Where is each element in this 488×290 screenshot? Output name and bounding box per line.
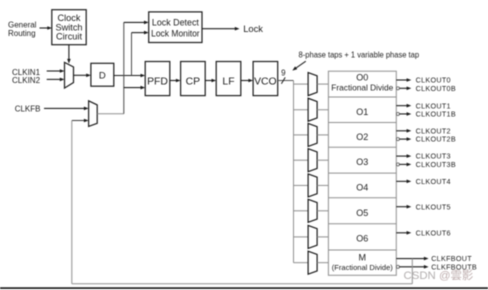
svg-text:CSDN @雲影: CSDN @雲影 <box>404 269 474 282</box>
wire mux to divider O1 <box>317 109 328 111</box>
wire output CLKFBOUT <box>396 257 428 261</box>
wire output CLKOUT0B <box>399 87 411 91</box>
wire mux to divider M <box>317 262 328 264</box>
wire divider row boundary y122.5 <box>328 122 396 124</box>
block Clock Switch Circuit <box>52 10 86 45</box>
wire feedback left vertical to mux M2 <box>71 121 73 284</box>
block D divider <box>91 63 114 86</box>
svg-text:CLKOUT4: CLKOUT4 <box>416 177 451 186</box>
wire clock switch circuit select to mux M1 <box>67 45 71 64</box>
wire feedback junction vertical from CLKFBOUT <box>411 259 413 284</box>
mux phase select O3 <box>308 149 317 172</box>
svg-text:Lock Detect: Lock Detect <box>152 18 199 28</box>
pin inverted output bubble CLKOUT2B <box>396 138 399 141</box>
wire LF to VCO <box>241 79 253 83</box>
wire divider row boundary y97 <box>328 96 396 98</box>
wire output CLKOUT2B <box>399 137 411 141</box>
wire divider row boundary y250 <box>328 249 396 251</box>
wire bus tap to mux O2 <box>294 134 309 136</box>
wire CP to LF <box>205 79 216 83</box>
pin inverted output bubble CLKOUT3B <box>396 163 399 166</box>
svg-text:CLKOUT1B: CLKOUT1B <box>416 110 456 119</box>
block LF <box>216 62 241 96</box>
svg-text:O0: O0 <box>356 73 368 83</box>
block VCO <box>253 62 278 96</box>
wire output CLKOUT6 <box>396 231 411 235</box>
svg-text:CLKIN2: CLKIN2 <box>12 76 41 85</box>
mux phase select O1 <box>308 98 317 121</box>
svg-text:CLKOUT6: CLKOUT6 <box>416 228 451 237</box>
wire divider row boundary y147.3 <box>328 146 396 148</box>
wire general routing to clock switch circuit <box>40 26 53 30</box>
svg-text:O4: O4 <box>356 183 368 193</box>
wire output CLKOUT3 <box>396 154 411 158</box>
node General Routing label <box>8 21 37 38</box>
svg-text:O6: O6 <box>356 233 368 243</box>
wire output CLKOUT1 <box>396 104 411 108</box>
wire bus tap to mux O0 <box>294 83 309 85</box>
svg-text:Routing: Routing <box>8 29 36 38</box>
wire output CLKOUT2 <box>396 129 411 133</box>
svg-text:CLKOUT2B: CLKOUT2B <box>416 135 456 144</box>
svg-text:LF: LF <box>222 76 234 87</box>
wire output CLKOUT4 <box>396 180 411 184</box>
svg-text:PFD: PFD <box>147 76 168 87</box>
wire mux M2 output to feedback node <box>97 113 124 115</box>
wire output CLKFBOUTB <box>399 265 428 269</box>
wire reference tap vertical to lock detect input B <box>131 33 133 76</box>
wire annotation arrow to bus <box>292 61 306 70</box>
wire mux to divider O3 <box>317 159 328 161</box>
svg-text:O5: O5 <box>356 208 368 218</box>
svg-text:VCO: VCO <box>254 76 277 87</box>
wire output CLKOUT3B <box>399 163 411 167</box>
mux phase select M <box>308 251 317 274</box>
svg-text:CP: CP <box>186 76 201 87</box>
wire CLKIN2 to mux M1 <box>47 78 65 82</box>
wire feedback bottom horizontal <box>72 283 413 285</box>
wire feedback branch to PFD feedback input <box>124 86 145 90</box>
wire CLKIN1 to mux M1 <box>47 69 65 73</box>
wire D output to PFD reference input <box>114 74 145 78</box>
svg-text:O1: O1 <box>356 107 368 117</box>
block output divider stack <box>328 71 396 275</box>
wire bus tap to mux M <box>294 262 309 264</box>
block Lock Detect / Lock Monitor <box>149 12 202 43</box>
svg-text:Fractional Divide: Fractional Divide <box>331 83 393 93</box>
svg-text:O3: O3 <box>356 157 368 167</box>
wire mux to divider O6 <box>317 236 328 238</box>
wire bus tap to mux O5 <box>294 210 309 212</box>
wire divider row boundary y197.8 <box>328 197 396 199</box>
wire into Lock Detect input B <box>132 31 149 35</box>
wire feedback vertical to lock detect input A <box>123 22 125 113</box>
wire mux to divider O0 <box>317 83 328 85</box>
svg-text:CLKFB: CLKFB <box>15 105 41 114</box>
wire VCO output bus <box>278 80 294 82</box>
mux phase select O5 <box>308 199 317 222</box>
wire into Lock Detect input A <box>124 21 149 25</box>
wire PFD to CP <box>170 79 181 83</box>
wire bus tap to mux O1 <box>294 109 309 111</box>
mux M2 feedback mux <box>89 101 98 127</box>
mux M1 input clock mux <box>65 62 74 88</box>
wire output CLKOUT0 <box>396 78 411 82</box>
svg-text:M: M <box>359 253 367 263</box>
wire bus tap to mux O6 <box>294 236 309 238</box>
svg-text:D: D <box>99 71 106 82</box>
wire output CLKOUT1B <box>399 112 411 116</box>
pin inverted output bubble CLKFBOUTB <box>396 265 399 268</box>
wire phase tap bus vertical <box>293 81 295 263</box>
wire feedback into mux M2 <box>72 119 89 123</box>
wire output CLKOUT5 <box>396 205 411 209</box>
svg-text:CLKOUT0B: CLKOUT0B <box>416 84 456 93</box>
wire mux to divider O2 <box>317 134 328 136</box>
bus width slash <box>281 77 285 83</box>
svg-text:Lock Monitor: Lock Monitor <box>151 28 200 38</box>
mux phase select O2 <box>308 123 317 146</box>
pin inverted output bubble CLKOUT0B <box>396 87 399 90</box>
svg-text:Lock: Lock <box>243 23 263 34</box>
svg-text:CLKOUT3B: CLKOUT3B <box>416 160 456 169</box>
pin inverted output bubble CLKOUT1B <box>396 112 399 115</box>
wire bus tap to mux O3 <box>294 159 309 161</box>
svg-text:CLKOUT5: CLKOUT5 <box>416 202 451 211</box>
wire bus tap to mux O4 <box>294 184 309 186</box>
mux phase select O6 <box>308 225 317 248</box>
wire Lock output <box>202 27 240 31</box>
svg-text:8-phase taps + 1 variable phas: 8-phase taps + 1 variable phase tap <box>299 51 420 60</box>
svg-text:Circuit: Circuit <box>56 32 82 42</box>
svg-text:(Fractional Divide): (Fractional Divide) <box>332 263 393 272</box>
wire divider row boundary y223.8 <box>328 223 396 225</box>
block PFD <box>145 62 170 96</box>
wire mux M1 to D divider <box>74 74 91 78</box>
svg-text:O2: O2 <box>356 132 368 142</box>
wire divider row boundary y173.1 <box>328 172 396 174</box>
wire mux to divider O4 <box>317 184 328 186</box>
block CP <box>181 62 206 96</box>
wire CLKFB to mux M2 <box>44 107 89 111</box>
bottom rule <box>0 287 488 289</box>
svg-text:9: 9 <box>281 69 286 78</box>
mux phase select O0 <box>308 73 317 96</box>
mux phase select O4 <box>308 174 317 197</box>
wire mux to divider O5 <box>317 210 328 212</box>
